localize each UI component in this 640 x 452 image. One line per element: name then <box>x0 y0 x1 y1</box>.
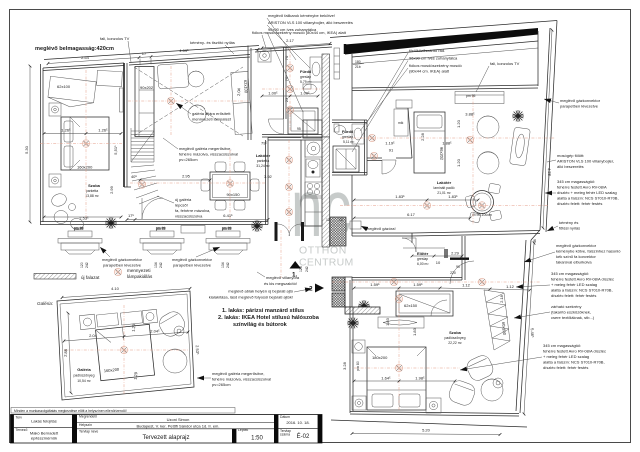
svg-text:pm 83: pm 83 <box>222 227 232 231</box>
bottom wall apt1 (double) <box>41 221 269 223</box>
svg-text:345 cm magasságtól:: 345 cm magasságtól: <box>543 343 581 348</box>
svg-text:parapetben kivezetve: parapetben kivezetve <box>173 263 212 268</box>
svg-text:kémény- és tisztító nyílás: kémény- és tisztító nyílás <box>190 40 235 45</box>
villanyora axis <box>280 230 282 278</box>
svg-text:2.29: 2.29 <box>451 251 460 256</box>
round chairs living1 <box>188 71 204 87</box>
living2 lower axis <box>340 205 548 207</box>
outer boundary top-left slanted <box>44 46 259 60</box>
outer boundary bottom right <box>331 420 527 427</box>
galeria armchairs <box>156 308 188 339</box>
svg-text:17: 17 <box>142 51 147 56</box>
svg-text:2.88: 2.88 <box>63 348 68 357</box>
svg-text:Lépték: Lépték <box>238 428 248 432</box>
black wedge wall <box>345 28 538 55</box>
svg-text:Fürdő: Fürdő <box>342 129 354 134</box>
svg-text:parapetben kivezetve: parapetben kivezetve <box>560 104 599 109</box>
black bar 3 <box>232 429 236 443</box>
svg-text:5.20: 5.20 <box>422 428 431 433</box>
svg-text:meglévő gázkonvektor: meglévő gázkonvektor <box>556 243 597 248</box>
bedroom2 axes <box>398 288 400 410</box>
svg-text:és kis megszakító!: és kis megszakító! <box>264 281 297 286</box>
kitchen counters <box>301 140 322 226</box>
bathroom1 bottom wall <box>262 134 322 136</box>
svg-text:1.98⁵: 1.98⁵ <box>415 376 425 381</box>
svg-text:5,79 m²: 5,79 m² <box>300 80 312 84</box>
svg-text:Szoba: Szoba <box>449 330 462 335</box>
right boundary lower <box>531 230 540 240</box>
svg-text:mosógép fölött:: mosógép fölött: <box>557 153 584 158</box>
dining chairs <box>215 162 226 172</box>
svg-text:2.95: 2.95 <box>182 174 191 179</box>
svg-text:12: 12 <box>339 218 343 222</box>
living2 left wall <box>351 88 353 120</box>
bathroom2 sink <box>352 124 364 144</box>
szoba1 axes <box>40 143 122 145</box>
svg-text:ARISTON VLS 100 villanybojler,: ARISTON VLS 100 villanybojler, álló besz… <box>268 20 353 25</box>
svg-text:Lakótér: Lakótér <box>437 180 452 185</box>
svg-text:+ meleg fehér LED szalag: + meleg fehér LED szalag <box>543 354 589 359</box>
small cabinet top-left living2 <box>394 109 408 136</box>
svg-text:greslap: greslap <box>300 75 311 79</box>
kitchen axes <box>288 140 290 232</box>
svg-text:Tervezett alaprajz: Tervezett alaprajz <box>142 435 189 441</box>
svg-text:1.12: 1.12 <box>506 284 515 289</box>
svg-text:padlószőnyeg: padlószőnyeg <box>74 374 95 378</box>
svg-text:2.54: 2.54 <box>81 55 90 60</box>
round chairs living2 <box>477 116 499 138</box>
galeria dims <box>62 289 190 298</box>
plants bedroom2 <box>358 300 370 312</box>
svg-text:345 cm magasságtól:: 345 cm magasságtól: <box>557 179 595 184</box>
svg-text:70: 70 <box>284 55 289 60</box>
svg-text:greslap: greslap <box>417 257 428 261</box>
svg-text:1.83: 1.83 <box>412 327 417 336</box>
svg-text:1.29: 1.29 <box>133 371 139 380</box>
galeria headboard <box>96 313 118 327</box>
svg-text:2.99: 2.99 <box>109 185 114 194</box>
door arc wardrobe right <box>431 300 447 316</box>
plants apt1 <box>105 217 117 229</box>
svg-text:91: 91 <box>389 148 394 153</box>
svg-text:2.18: 2.18 <box>499 294 504 303</box>
svg-text:1.: 1. <box>292 272 298 279</box>
bathroom2 shower <box>333 146 359 172</box>
svg-text:pm 83: pm 83 <box>156 227 166 231</box>
bathroom1 left wall <box>283 47 285 119</box>
svg-text:1.26⁵: 1.26⁵ <box>98 128 108 133</box>
ottoman top living1 <box>157 63 189 89</box>
dresser below wardrobe <box>378 317 424 328</box>
bottom dim apt1 <box>127 219 135 221</box>
svg-text:1.88⁵: 1.88⁵ <box>442 141 452 146</box>
svg-text:parapetben kivezetve: parapetben kivezetve <box>103 263 142 268</box>
svg-text:É-02: É-02 <box>297 433 310 440</box>
svg-text:alatta a falszín: NCS S7010-R7: alatta a falszín: NCS S7010-R70B, <box>557 196 619 201</box>
svg-text:2.17: 2.17 <box>286 38 295 43</box>
svg-text:+ meleg fehér LED szalag: + meleg fehér LED szalag <box>551 282 597 287</box>
bed 160x200 szoba1 <box>61 117 109 170</box>
svg-text:242: 242 <box>305 266 309 272</box>
svg-text:ARISTON VLS 100 villanybojler,: ARISTON VLS 100 villanybojler, <box>557 159 614 164</box>
svg-text:1.20: 1.20 <box>456 158 461 167</box>
bed 96x202 living2 <box>414 112 445 173</box>
svg-text:46: 46 <box>533 239 537 243</box>
svg-text:21b: 21b <box>355 65 361 69</box>
svg-text:2: 2 <box>309 286 313 293</box>
svg-text:(takarító eszközöknek,: (takarító eszközöknek, <box>551 310 591 315</box>
top dim line apt1 <box>48 58 139 64</box>
svg-text:Minden a munkaszolgáltatás meg: Minden a munkaszolgáltatás megkezdése el… <box>14 409 127 413</box>
svg-text:fali, konzolos TV: fali, konzolos TV <box>100 36 130 41</box>
svg-text:242: 242 <box>85 262 89 268</box>
bath1 dims <box>262 95 290 97</box>
svg-text:1.83⁵: 1.83⁵ <box>395 194 405 199</box>
armchairs bedroom2 <box>464 353 495 383</box>
black bar 2 <box>72 415 77 444</box>
left outer wall (double) <box>40 64 42 225</box>
svg-text:220: 220 <box>450 271 456 275</box>
sliver room below wedge <box>352 41 538 57</box>
svg-text:Tervező: Tervező <box>16 428 28 432</box>
svg-text:10,54 m²: 10,54 m² <box>77 379 91 383</box>
galeria nightstands <box>79 314 95 329</box>
svg-text:2.53⁵: 2.53⁵ <box>79 216 89 221</box>
svg-text:fali, konzolos TV: fali, konzolos TV <box>490 61 520 66</box>
svg-text:5.30: 5.30 <box>24 145 29 154</box>
svg-text:1.29: 1.29 <box>131 323 137 332</box>
bathroom2 walls <box>332 119 367 121</box>
kitchen sink <box>306 159 320 177</box>
svg-text:díszléc + meleg fehér LED szal: díszléc + meleg fehér LED szalag <box>557 190 617 195</box>
svg-text:2016. 10. 18.: 2016. 10. 18. <box>286 420 309 425</box>
svg-text:Ø=90-100cm: Ø=90-100cm <box>472 213 492 217</box>
svg-text:62x100: 62x100 <box>57 84 71 89</box>
kitchen lower cabinet <box>305 198 322 226</box>
bathroom1 sink cabinet <box>310 57 322 82</box>
dining dim <box>140 179 210 181</box>
svg-text:90x202: 90x202 <box>140 85 154 90</box>
bedroom2 walls <box>349 280 351 413</box>
svg-text:galéria aljára erősített: galéria aljára erősített <box>192 111 231 116</box>
svg-text:álló beszerelés: álló beszerelés <box>557 164 584 169</box>
svg-text:4.09⁵: 4.09⁵ <box>179 48 189 53</box>
svg-text:90x150: 90x150 <box>226 192 240 197</box>
svg-text:takaróval elburkolva: takaróval elburkolva <box>556 260 592 265</box>
svg-text:új galéria: új galéria <box>175 197 192 202</box>
triangle marker 2 <box>315 284 324 293</box>
svg-text:pm 83: pm 83 <box>74 227 84 231</box>
szoba1 bed dims <box>44 133 86 135</box>
svg-text:1.00⁵: 1.00⁵ <box>300 91 310 96</box>
svg-text:díszléc felett: fehér festés: díszléc felett: fehér festés <box>543 365 588 370</box>
svg-text:meglévő falikarok kéménybe bek: meglévő falikarok kéménybe bekötve! <box>268 13 335 18</box>
svg-text:3.28: 3.28 <box>342 361 347 370</box>
svg-text:1.83⁵: 1.83⁵ <box>448 194 458 199</box>
svg-text:pm 95: pm 95 <box>466 94 476 98</box>
svg-text:lámpakiállás: lámpakiállás <box>127 274 153 279</box>
svg-text:Dátum: Dátum <box>280 415 290 419</box>
svg-text:5,51⁵: 5,51⁵ <box>113 145 118 155</box>
svg-text:kéménybe kötve, falszínhez has: kéménybe kötve, falszínhez hasonló <box>556 249 621 254</box>
black bar left <box>11 415 14 444</box>
svg-text:4.10: 4.10 <box>111 286 120 291</box>
svg-text:meglévő galéria megerősítve,: meglévő galéria megerősítve, <box>212 371 264 376</box>
svg-text:1.26⁵: 1.26⁵ <box>61 128 71 133</box>
svg-text:1.20: 1.20 <box>456 119 461 128</box>
svg-text:Galéria:: Galéria: <box>37 301 54 306</box>
svg-text:Szoba: Szoba <box>88 183 101 188</box>
bathroom1 shower <box>288 108 318 134</box>
living1 axes <box>128 100 248 102</box>
svg-text:mennyezeti: mennyezeti <box>127 268 151 273</box>
bathroom2 wc <box>334 124 339 132</box>
sideboard top living2 <box>455 92 504 104</box>
svg-text:2. lakás: IKEA Hotel stílusú h: 2. lakás: IKEA Hotel stílusú hálószoba <box>218 315 320 321</box>
bathroom1 door arc <box>269 119 284 134</box>
svg-text:10: 10 <box>436 260 441 265</box>
bathroom1 top wall slanted <box>255 45 332 50</box>
svg-text:színvilág és bútorok: színvilág és bútorok <box>233 322 288 328</box>
top wall living (double) <box>129 55 250 63</box>
svg-text:31,24 m²: 31,24 m² <box>256 164 270 168</box>
bed2 180x200 <box>367 347 426 410</box>
svg-text:Galéria: Galéria <box>77 367 91 372</box>
svg-text:40⁵: 40⁵ <box>131 174 137 179</box>
svg-text:96x202: 96x202 <box>439 147 444 161</box>
svg-text:Tervlap neve: Tervlap neve <box>79 429 98 433</box>
svg-text:fűtési nyílás: fűtési nyílás <box>559 226 580 231</box>
outer boundary thin top <box>330 21 557 38</box>
wall szoba/living (double) <box>123 63 125 187</box>
svg-text:90: 90 <box>456 265 460 269</box>
svg-text:79⁵: 79⁵ <box>261 141 267 146</box>
svg-text:meglévő gázkonvektor: meglévő gázkonvektor <box>102 257 143 262</box>
right slanted dim 4.28 <box>543 30 552 228</box>
svg-text:Uzoni Simon: Uzoni Simon <box>167 417 190 422</box>
black bar 4 <box>274 415 278 444</box>
apt1 lower-right walls near kitchen <box>268 139 301 141</box>
svg-text:1.19⁵: 1.19⁵ <box>385 141 395 146</box>
svg-text:mik: mik <box>398 121 404 125</box>
bath2/living2 axis <box>340 137 555 139</box>
svg-text:6,00 m²: 6,00 m² <box>417 262 429 266</box>
svg-text:2.28: 2.28 <box>420 132 425 141</box>
uj falazat hatch bar <box>34 274 76 280</box>
svg-text:(80x44 cm. IKEA) alatt: (80x44 cm. IKEA) alatt <box>409 69 450 74</box>
svg-text:Lakás felújítás: Lakás felújítás <box>31 418 57 423</box>
gas meter box <box>350 221 361 229</box>
svg-text:fehérre festett Avro RV-08/A d: fehérre festett Avro RV-08/A díszléc <box>543 349 606 354</box>
kitchen stove <box>305 182 322 196</box>
svg-text:pv=265cm: pv=265cm <box>212 382 231 387</box>
svg-text:23: 23 <box>284 97 289 102</box>
plant living2 <box>512 110 524 122</box>
left vertical dim <box>29 66 31 222</box>
svg-text:2.04: 2.04 <box>236 87 241 96</box>
svg-text:meglévő galéria megerősítve,: meglévő galéria megerősítve, <box>179 146 231 151</box>
bath1 top dim <box>262 44 330 49</box>
bed2 nightstands <box>352 340 365 353</box>
svg-text:134: 134 <box>154 262 158 268</box>
dining table 90x150 <box>210 172 250 200</box>
triangle marker 1 <box>290 261 302 269</box>
svg-text:4.28: 4.28 <box>547 168 552 177</box>
dark wall segment corridor bottom <box>345 307 380 314</box>
TV rect szoba1 wall <box>120 88 124 112</box>
svg-text:pm 80: pm 80 <box>356 361 360 371</box>
svg-text:fehérre festett Avro RV-08/A: fehérre festett Avro RV-08/A <box>557 185 607 190</box>
disclaimer strip above title block <box>11 408 235 414</box>
svg-text:padlószőnyeg: padlószőnyeg <box>445 336 466 340</box>
svg-text:120: 120 <box>80 262 84 268</box>
svg-text:180: 180 <box>355 60 361 64</box>
svg-text:22,22 m²: 22,22 m² <box>448 341 462 345</box>
svg-text:fehérre mázolva, visszacsiszol: fehérre mázolva, visszacsiszolva! <box>212 377 271 382</box>
svg-text:lépcső!: lépcső! <box>175 203 188 208</box>
svg-text:12: 12 <box>326 218 330 222</box>
title block table <box>11 415 323 444</box>
walls around entry/corridor <box>367 157 382 159</box>
watermark logo nc <box>291 163 354 269</box>
svg-text:mennyezeti lámpatest: mennyezeti lámpatest <box>192 117 232 122</box>
shelf top of szoba <box>97 70 123 86</box>
svg-text:kialakítása, lásd meglévő foly: kialakítása, lásd meglévő folyosói bejár… <box>209 295 293 300</box>
svg-text:3.92: 3.92 <box>264 174 273 179</box>
svg-text:meglévő ablak helyén új bejára: meglévő ablak helyén új bejárati ajtó <box>228 289 293 294</box>
black bar right <box>318 415 322 444</box>
entry door arcs <box>402 238 416 252</box>
fridge top at central <box>303 120 322 138</box>
svg-text:meglévő gázkonvektor: meglévő gázkonvektor <box>560 98 601 103</box>
svg-text:új falazat: új falazat <box>81 275 100 280</box>
svg-text:greslap: greslap <box>342 135 353 139</box>
bathroom2 door arc <box>382 160 396 174</box>
svg-text:törölközőszárító rad.: törölközőszárító rad. <box>409 48 445 53</box>
svg-text:kémény és: kémény és <box>559 220 578 225</box>
svg-text:5.46⁵: 5.46⁵ <box>530 328 536 338</box>
corridor walls <box>352 277 462 279</box>
svg-text:1.59⁵: 1.59⁵ <box>370 282 380 287</box>
svg-text:építészmérnök: építészmérnök <box>31 435 57 440</box>
svg-text:17⁵: 17⁵ <box>128 213 134 218</box>
svg-text:meglévő belmagasság:420cm: meglévő belmagasság:420cm <box>35 46 114 52</box>
svg-text:száma: száma <box>280 432 290 436</box>
gallery X dashed over living1 <box>134 67 243 136</box>
galeria bed rotated <box>96 324 155 380</box>
svg-text:díszléc felett: fehér festés: díszléc felett: fehér festés <box>557 201 602 206</box>
svg-text:3.88⁵: 3.88⁵ <box>465 112 475 117</box>
stairs <box>131 128 163 219</box>
galeria outline <box>57 291 194 400</box>
svg-text:pv=265cm: pv=265cm <box>179 157 198 162</box>
svg-text:alatta a falszín: NCS S7010-R7: alatta a falszín: NCS S7010-R70B, <box>551 288 613 293</box>
svg-text:fa, fehérre mázolva,: fa, fehérre mázolva, <box>175 208 210 213</box>
svg-text:1. lakás: párizsi manzárd stíl: 1. lakás: párizsi manzárd stílus <box>222 308 304 314</box>
towel radiator <box>334 48 340 79</box>
chaise living2 <box>509 127 530 166</box>
mennyezeti lampa legend <box>114 268 122 276</box>
round dining table apt2 <box>471 191 494 214</box>
svg-text:laminált padló: laminált padló <box>434 186 455 190</box>
corridor wardrobe 62x150 <box>396 291 453 316</box>
sofa 90x202 living1 <box>135 67 154 137</box>
bathroom1 axes <box>289 48 291 132</box>
benches (gazkonvektor) bottom <box>58 226 250 255</box>
svg-text:1.12: 1.12 <box>462 283 471 288</box>
svg-text:Előtér: Előtér <box>417 251 429 256</box>
cell A divider <box>14 426 72 428</box>
central hatched wall <box>322 54 330 137</box>
entry area walls <box>352 232 412 234</box>
svg-text:95: 95 <box>297 127 301 131</box>
svg-text:1.64⁵: 1.64⁵ <box>381 376 391 381</box>
nightstand boxes szoba1 <box>49 103 61 116</box>
right outer boundary upper <box>546 21 557 233</box>
svg-text:Megrendelő: Megrendelő <box>79 415 97 419</box>
svg-text:alatta a falszín: NCS S7010-R7: alatta a falszín: NCS S7010-R70B, <box>543 360 605 365</box>
middle column rows <box>77 422 274 424</box>
svg-text:fehérre festett Avro RV-08/A d: fehérre festett Avro RV-08/A díszléc <box>551 277 614 282</box>
wall right of living (double) <box>247 46 249 141</box>
svg-text:1.83: 1.83 <box>385 317 390 326</box>
svg-text:6.41⁵: 6.41⁵ <box>223 213 233 218</box>
svg-text:Fürdő: Fürdő <box>300 69 312 74</box>
svg-text:1.59⁵: 1.59⁵ <box>413 282 423 287</box>
svg-text:visszacsiszolva: visszacsiszolva <box>175 214 203 219</box>
svg-text:meglévő gázkonvektor: meglévő gázkonvektor <box>172 257 213 262</box>
svg-text:13,88 m²: 13,88 m² <box>85 194 99 198</box>
top wall szoba (double) <box>43 63 124 68</box>
svg-text:5,11 m²: 5,11 m² <box>343 140 355 144</box>
chimney hatched blocks <box>332 277 345 291</box>
galeria axes <box>64 349 188 351</box>
svg-text:díszléc felett: fehér festés: díszléc felett: fehér festés <box>551 293 596 298</box>
svg-text:fehérre mázolva, visszacsiszol: fehérre mázolva, visszacsiszolva! <box>179 152 238 157</box>
kitchen washing machine <box>305 140 322 157</box>
double door bottom center <box>278 224 290 236</box>
wardrobe right of living1 62x100 <box>231 71 252 134</box>
svg-text:2.53⁵: 2.53⁵ <box>195 345 201 355</box>
svg-text:242: 242 <box>159 262 163 268</box>
svg-text:345 cm magasságtól:: 345 cm magasságtól: <box>551 271 589 276</box>
svg-text:96x90 cm íves zuhanytálca: 96x90 cm íves zuhanytálca <box>268 27 317 32</box>
svg-text:6.17: 6.17 <box>407 212 416 217</box>
corridor dims <box>354 287 399 289</box>
svg-text:160x200: 160x200 <box>77 165 93 170</box>
svg-text:62x150: 62x150 <box>404 303 418 308</box>
svg-text:62x100: 62x100 <box>243 80 249 94</box>
corridor axis <box>332 281 540 283</box>
svg-text:134: 134 <box>221 262 225 268</box>
svg-text:Budapest, V. ker. Petőfi Sándo: Budapest, V. ker. Petőfi Sándor utca 1d.… <box>136 424 219 429</box>
svg-text:180x200: 180x200 <box>372 355 388 360</box>
wardrobe 62x100 tilted top-left <box>47 76 96 109</box>
svg-text:parketta: parketta <box>257 159 269 163</box>
svg-text:Lakótér: Lakótér <box>256 153 271 158</box>
svg-text:fiókos mosdószekrény mosdó: fiókos mosdószekrény mosdó <box>409 63 462 68</box>
living2 top wall <box>352 85 538 88</box>
svg-text:242: 242 <box>226 262 230 268</box>
svg-text:zárható szekrény: zárható szekrény <box>551 304 581 309</box>
washing machine niche top <box>258 49 271 62</box>
zigzag wardrobe bedroom2 <box>484 290 510 350</box>
bathroom1 wc <box>303 84 311 89</box>
svg-text:csere textíliáknak, stb...): csere textíliáknak, stb...) <box>551 315 595 320</box>
dining axes <box>130 182 265 184</box>
svg-text:96x90 cm íves zuhanytálca: 96x90 cm íves zuhanytálca <box>409 56 458 61</box>
svg-text:Terv: Terv <box>16 416 23 420</box>
